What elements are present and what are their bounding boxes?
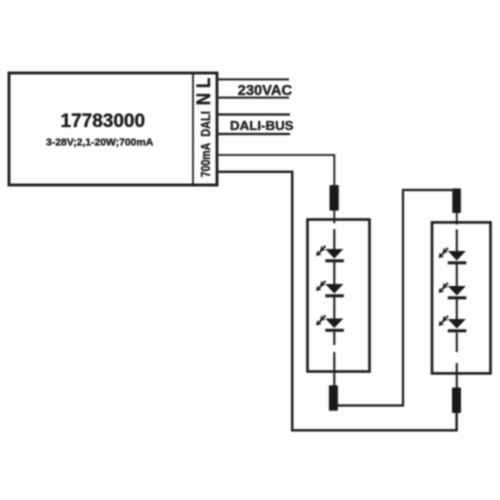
svg-text:3-28V;2,1-20W;700mA: 3-28V;2,1-20W;700mA (46, 138, 154, 149)
svg-text:N L: N L (193, 78, 214, 106)
svg-text:230VAC: 230VAC (238, 83, 293, 99)
svg-text:DALI: DALI (198, 111, 213, 136)
svg-text:700mA: 700mA (200, 142, 213, 177)
svg-text:17783000: 17783000 (61, 111, 146, 132)
svg-text:DALI-BUS: DALI-BUS (230, 118, 294, 133)
